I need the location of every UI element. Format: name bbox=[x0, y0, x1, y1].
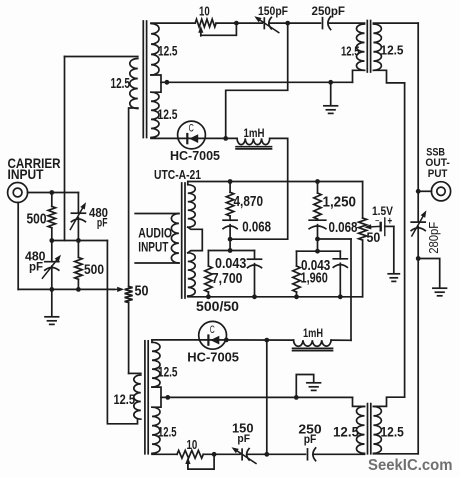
svg-text:0.068: 0.068 bbox=[242, 220, 271, 236]
svg-text:HC-7005: HC-7005 bbox=[187, 349, 239, 364]
svg-text:1mH: 1mH bbox=[303, 327, 323, 340]
svg-text:12.5: 12.5 bbox=[111, 76, 131, 92]
svg-text:7,700: 7,700 bbox=[212, 271, 243, 287]
svg-text:−: − bbox=[375, 218, 379, 225]
svg-text:12.5: 12.5 bbox=[158, 43, 178, 58]
svg-text:pF: pF bbox=[237, 433, 250, 445]
svg-text:10: 10 bbox=[199, 4, 210, 18]
svg-text:UTC-A-21: UTC-A-21 bbox=[154, 167, 201, 182]
svg-text:pF: pF bbox=[97, 215, 108, 229]
svg-text:12.5: 12.5 bbox=[381, 424, 405, 439]
svg-text:1,960: 1,960 bbox=[301, 271, 328, 287]
svg-text:0.068: 0.068 bbox=[329, 220, 358, 236]
svg-text:pF: pF bbox=[304, 433, 317, 446]
svg-text:SeekIC.com: SeekIC.com bbox=[368, 457, 453, 474]
svg-text:4,870: 4,870 bbox=[234, 194, 264, 210]
svg-text:12.5: 12.5 bbox=[158, 106, 178, 122]
svg-text:1,250: 1,250 bbox=[323, 195, 357, 211]
svg-text:500: 500 bbox=[27, 211, 47, 228]
svg-text:0.043: 0.043 bbox=[215, 256, 246, 272]
svg-text:10: 10 bbox=[187, 438, 198, 452]
svg-text:250pF: 250pF bbox=[312, 4, 346, 18]
svg-text:12.5: 12.5 bbox=[114, 391, 136, 407]
svg-text:C: C bbox=[210, 324, 215, 336]
svg-text:12.5: 12.5 bbox=[333, 424, 359, 439]
svg-text:280pF: 280pF bbox=[427, 221, 441, 253]
svg-text:C: C bbox=[189, 122, 194, 134]
svg-text:INPUT: INPUT bbox=[8, 167, 45, 182]
svg-text:500/50: 500/50 bbox=[196, 298, 239, 314]
svg-text:50: 50 bbox=[367, 230, 381, 245]
svg-text:1mH: 1mH bbox=[244, 127, 265, 140]
svg-text:INPUT: INPUT bbox=[138, 239, 168, 255]
svg-text:50: 50 bbox=[135, 283, 149, 299]
svg-text:12.5: 12.5 bbox=[381, 43, 404, 58]
svg-text:+: + bbox=[388, 216, 393, 228]
svg-text:PUT: PUT bbox=[428, 168, 448, 180]
svg-text:12.5: 12.5 bbox=[158, 425, 177, 440]
svg-text:12.5: 12.5 bbox=[158, 364, 178, 379]
svg-text:pF: pF bbox=[29, 259, 43, 273]
svg-text:12.5: 12.5 bbox=[341, 43, 360, 58]
svg-text:500: 500 bbox=[84, 262, 104, 277]
svg-text:HC-7005: HC-7005 bbox=[170, 148, 220, 163]
svg-text:150pF: 150pF bbox=[258, 4, 288, 18]
